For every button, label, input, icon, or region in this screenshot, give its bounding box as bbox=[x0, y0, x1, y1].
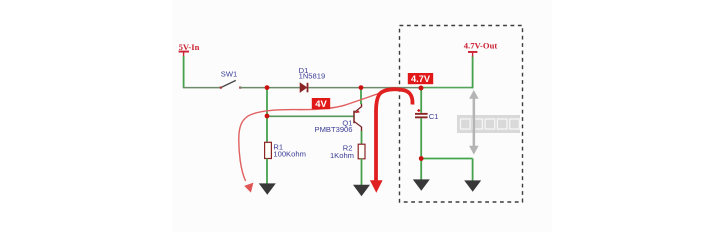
svg-text:C1: C1 bbox=[429, 112, 439, 121]
annotation thick red arrow bbox=[370, 89, 413, 193]
svg-text:1Kohm: 1Kohm bbox=[330, 151, 354, 160]
wire ground run bbox=[421, 158, 472, 160]
transistor Q1 PMBT3906 bbox=[315, 104, 362, 135]
label 4.7V bbox=[408, 73, 433, 84]
wire 5V-In vertical bbox=[183, 56, 185, 88]
svg-text:5V-In: 5V-In bbox=[179, 42, 200, 52]
port 5V-In bbox=[179, 42, 200, 57]
svg-text:SW1: SW1 bbox=[221, 69, 237, 78]
diode D1 1N5819 bbox=[299, 66, 326, 93]
ground under R1 bbox=[259, 183, 276, 194]
node A junction bbox=[265, 85, 270, 90]
node E junction bbox=[419, 156, 424, 161]
dashed load-circuit box bbox=[400, 26, 523, 203]
wire node B to node C bbox=[361, 87, 421, 89]
wire R1 to ground bbox=[266, 159, 268, 185]
capacitor C1 bbox=[415, 89, 439, 159]
wire 5V-In to SW1 bbox=[183, 87, 221, 89]
node C junction bbox=[419, 86, 424, 91]
wire output vertical bbox=[472, 57, 474, 89]
resistor R1 bbox=[265, 142, 306, 158]
ground under C1 bbox=[413, 179, 430, 190]
switch SW1 bbox=[220, 69, 242, 88]
svg-text:100Kohm: 100Kohm bbox=[273, 150, 306, 159]
annotation thin red arrow bbox=[239, 89, 393, 193]
port 4.7V-Out bbox=[464, 41, 498, 57]
wire node A to D1 anode bbox=[267, 87, 300, 89]
wire node A down bbox=[266, 88, 268, 116]
svg-text:4V: 4V bbox=[315, 98, 327, 109]
ground under R2 bbox=[353, 185, 370, 196]
node B junction bbox=[359, 85, 364, 90]
wire node D to R1 bbox=[266, 116, 268, 143]
wire SW1 to node A bbox=[240, 87, 267, 89]
watermark double arrow bbox=[469, 90, 479, 155]
ground right bbox=[464, 180, 481, 191]
svg-text:PMBT3906: PMBT3906 bbox=[315, 125, 353, 134]
wire Q1 collector to R2 bbox=[361, 131, 363, 145]
watermark box bbox=[457, 115, 520, 133]
svg-text:4.7V-Out: 4.7V-Out bbox=[464, 41, 498, 51]
wire node C to output corner bbox=[421, 87, 473, 89]
svg-text:4.7V: 4.7V bbox=[411, 74, 431, 84]
wire base run bbox=[267, 115, 354, 117]
node D junction (base) bbox=[265, 114, 270, 119]
wire C1 to ground bbox=[420, 159, 422, 181]
resistor R2 bbox=[330, 143, 365, 159]
wire node B to Q1 emitter bbox=[360, 88, 362, 104]
wire R2 to ground bbox=[361, 159, 363, 186]
svg-text:1N5819: 1N5819 bbox=[299, 72, 326, 81]
wire right ground drop bbox=[472, 159, 474, 182]
wire D1 cathode to node B bbox=[308, 87, 361, 89]
label 4V bbox=[312, 98, 330, 109]
